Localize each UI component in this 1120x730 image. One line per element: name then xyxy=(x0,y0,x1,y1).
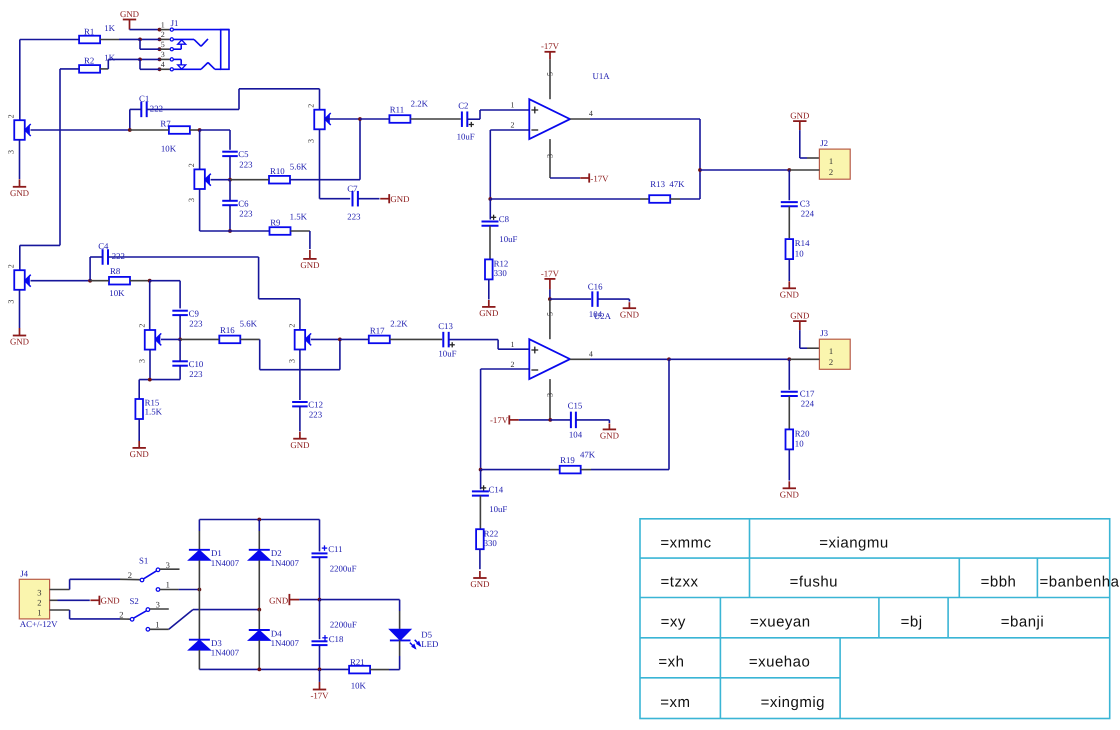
svg-text:D1: D1 xyxy=(211,548,222,558)
pin1 stub J4 xyxy=(50,609,70,611)
wire pin3 to -17V port xyxy=(550,177,580,179)
wire RP3 wiper to node xyxy=(326,118,361,120)
svg-text:J1: J1 xyxy=(171,18,179,28)
resistor R7 xyxy=(169,126,190,134)
svg-text:3: 3 xyxy=(307,139,316,143)
svg-text:=xh: =xh xyxy=(658,654,684,671)
svg-text:3: 3 xyxy=(156,600,160,610)
svg-text:2: 2 xyxy=(119,610,123,620)
svg-text:D3: D3 xyxy=(211,638,222,648)
wire C1 right to RP3 xyxy=(147,108,239,110)
svg-text:D4: D4 xyxy=(271,628,282,638)
svg-text:2: 2 xyxy=(128,570,132,580)
svg-text:2: 2 xyxy=(37,598,41,608)
svg-text:GND: GND xyxy=(269,595,288,605)
svg-text:GND: GND xyxy=(290,440,309,450)
svg-text:R9: R9 xyxy=(270,218,281,228)
ground C15 xyxy=(608,423,610,429)
wire gnd node to LED branch xyxy=(320,599,400,601)
svg-text:GND: GND xyxy=(600,431,619,441)
node top rail D2 xyxy=(257,518,261,522)
ground R22 xyxy=(479,571,481,578)
svg-text:GND: GND xyxy=(620,309,639,319)
wire R8 right xyxy=(130,280,150,282)
jack J1 body xyxy=(174,29,229,31)
svg-text:C17: C17 xyxy=(800,389,815,399)
resistor R10 xyxy=(269,176,290,184)
connector J3 xyxy=(819,339,850,369)
svg-text:222: 222 xyxy=(150,103,163,113)
wire U1A pin2 to feedback node xyxy=(489,130,491,199)
ground port J4 pin2 xyxy=(90,599,99,601)
wire RP5 pin2 xyxy=(149,281,151,330)
wire J1 pin3 to node xyxy=(140,58,160,60)
node feedback2 xyxy=(479,468,483,472)
svg-text:GND: GND xyxy=(479,308,498,318)
svg-text:S2: S2 xyxy=(130,596,139,606)
wire RP2 wiper to node xyxy=(211,179,230,181)
svg-text:C15: C15 xyxy=(568,401,583,411)
resistor R17 xyxy=(369,336,390,344)
capacitor C8 electrolytic xyxy=(489,199,491,220)
potentiometer RP3 xyxy=(314,110,325,130)
wire C9 down xyxy=(179,315,181,339)
wire C10 bottom xyxy=(179,366,181,380)
node C11/C18 xyxy=(318,598,322,602)
wire RP3 pin3 down to C7 xyxy=(319,129,321,198)
wire U2A pin2 down xyxy=(480,369,482,470)
wire C14 to R22 xyxy=(479,496,481,529)
svg-text:2.2K: 2.2K xyxy=(390,318,408,328)
svg-text:LED: LED xyxy=(421,639,438,649)
wire C6 top xyxy=(229,180,231,201)
svg-text:1K: 1K xyxy=(104,23,115,33)
svg-text:1.5K: 1.5K xyxy=(145,406,163,416)
capacitor C11 electrolytic xyxy=(312,552,328,554)
wire R10 right up to RP3 node xyxy=(290,179,360,181)
pin2 stub J2 xyxy=(789,169,819,171)
wire S1 throw1 to D1 node xyxy=(179,589,200,591)
capacitor C7 xyxy=(352,191,354,207)
svg-text:C13: C13 xyxy=(438,321,453,331)
resistor R13 xyxy=(649,195,670,203)
wire out2 to J3 xyxy=(669,358,789,360)
wire to C17 xyxy=(788,359,790,390)
svg-text:1N4007: 1N4007 xyxy=(271,558,300,568)
resistor R21 xyxy=(349,666,370,674)
power -17V supply xyxy=(319,669,321,682)
capacitor C2 xyxy=(461,111,463,127)
node J1 pin3 xyxy=(158,58,162,62)
node J1 pin1 xyxy=(158,28,162,32)
wire R12 to ground xyxy=(488,279,490,299)
svg-text:GND: GND xyxy=(470,579,489,589)
wire C17 to R20 xyxy=(788,396,790,429)
resistor R14 xyxy=(786,239,794,259)
node C4/R8 xyxy=(88,279,92,283)
wire R2 right jog xyxy=(100,68,108,70)
node R8 out xyxy=(148,279,152,283)
wire R21 right xyxy=(370,669,389,671)
capacitor C5 xyxy=(222,151,238,153)
capacitor C16 xyxy=(550,298,591,300)
wire R14 to ground xyxy=(788,259,790,281)
svg-text:1N4007: 1N4007 xyxy=(271,638,300,648)
connector J4 xyxy=(19,579,49,619)
wire to C3 xyxy=(788,170,790,200)
pin 2 wire U1A xyxy=(490,129,529,131)
wire C18 to bottom rail xyxy=(319,645,321,669)
svg-text:C16: C16 xyxy=(588,281,603,291)
svg-text:J2: J2 xyxy=(820,138,828,148)
op-amp U1A xyxy=(529,99,570,139)
jack J1 sleeve triangle upper xyxy=(174,48,182,50)
pin 2 stub J1 xyxy=(160,38,170,40)
svg-text:10uF: 10uF xyxy=(489,504,507,514)
svg-text:1: 1 xyxy=(37,608,41,618)
resistor R16 xyxy=(219,336,240,344)
pin1 stub J2 xyxy=(807,157,819,159)
ground C16 xyxy=(628,302,630,308)
wire R8 out to C9 branch xyxy=(150,280,180,282)
capacitor C13 xyxy=(442,332,444,348)
svg-text:C14: C14 xyxy=(489,484,504,494)
node RP3/R11 xyxy=(358,117,362,121)
svg-text:2: 2 xyxy=(7,114,16,118)
svg-text:R10: R10 xyxy=(270,166,285,176)
svg-text:223: 223 xyxy=(239,160,253,170)
node bottom rail D4 xyxy=(257,668,261,672)
svg-text:=xuehao: =xuehao xyxy=(749,654,810,671)
svg-text:=bbh: =bbh xyxy=(981,574,1017,591)
svg-text:R19: R19 xyxy=(560,455,575,465)
svg-text:GND: GND xyxy=(390,194,409,204)
wire RP2 pin2 xyxy=(199,130,201,169)
potentiometer RP5 xyxy=(145,330,156,350)
svg-text:=tzxx: =tzxx xyxy=(661,574,699,591)
wire J1 pin2 to node xyxy=(140,38,160,40)
svg-text:2: 2 xyxy=(161,30,165,39)
svg-text:=xm: =xm xyxy=(660,694,690,711)
resistor R22 xyxy=(476,529,484,549)
svg-text:S1: S1 xyxy=(139,556,148,566)
svg-text:10: 10 xyxy=(795,248,804,258)
svg-text:3: 3 xyxy=(187,198,196,202)
svg-text:C3: C3 xyxy=(800,199,811,209)
svg-text:2: 2 xyxy=(287,324,296,328)
capacitor C1 xyxy=(140,102,142,118)
svg-text:R8: R8 xyxy=(110,266,121,276)
node RP5 wiper xyxy=(178,338,182,342)
wire C12 to ground xyxy=(299,406,301,431)
svg-text:GND: GND xyxy=(790,311,809,321)
svg-text:GND: GND xyxy=(780,490,799,500)
wire D1 to S1 node xyxy=(198,560,200,589)
svg-text:AC+/-12V: AC+/-12V xyxy=(20,619,58,629)
capacitor C10 xyxy=(172,360,188,362)
svg-text:=xueyan: =xueyan xyxy=(750,614,811,631)
svg-text:5: 5 xyxy=(546,72,555,76)
svg-text:3: 3 xyxy=(7,300,16,304)
wire D2 column top xyxy=(258,520,260,532)
ground port C7 xyxy=(380,198,389,200)
pin 2 wire U2A xyxy=(481,368,530,370)
svg-text:5.6K: 5.6K xyxy=(240,319,258,329)
svg-text:2: 2 xyxy=(829,357,833,367)
svg-text:GND: GND xyxy=(101,596,120,606)
node S2/D2 xyxy=(257,608,261,612)
svg-text:223: 223 xyxy=(189,369,203,379)
pin 3 U2A down xyxy=(549,379,551,420)
svg-text:GND: GND xyxy=(300,260,319,270)
wire J4 pin2 to gnd port xyxy=(58,599,90,601)
svg-text:224: 224 xyxy=(801,399,815,409)
svg-text:1: 1 xyxy=(511,101,515,110)
svg-text:1N4007: 1N4007 xyxy=(211,558,240,568)
ground C12 xyxy=(299,432,301,439)
wire RP4 wiper xyxy=(31,280,91,282)
wire port to pin3 node xyxy=(519,419,551,421)
svg-text:1K: 1K xyxy=(104,52,115,62)
svg-text:5: 5 xyxy=(546,312,555,316)
wire R20 to ground xyxy=(788,449,790,480)
svg-text:C7: C7 xyxy=(347,184,358,194)
svg-text:GND: GND xyxy=(10,337,29,347)
wire bottom rail xyxy=(199,668,349,670)
svg-text:1.5K: 1.5K xyxy=(290,211,308,221)
resistor R1 xyxy=(79,36,100,44)
wire R16 right detour xyxy=(240,338,259,340)
svg-text:3: 3 xyxy=(546,154,555,158)
svg-text:1N4007: 1N4007 xyxy=(211,648,240,658)
wire C15 to ground xyxy=(576,419,609,421)
svg-text:223: 223 xyxy=(189,319,203,329)
wire RP5 wiper to node xyxy=(161,338,180,340)
svg-text:C4: C4 xyxy=(98,241,109,251)
wire C3 to R14 xyxy=(788,206,790,238)
pin1 stub J3 xyxy=(807,347,819,349)
power port -17V at U1A pin3 xyxy=(580,177,589,179)
pin 5 U2A xyxy=(549,299,551,339)
svg-text:10uF: 10uF xyxy=(499,234,517,244)
svg-text:R7: R7 xyxy=(160,118,171,128)
ground R15 xyxy=(138,441,140,448)
wire R2 left xyxy=(60,68,79,70)
capacitor C4 xyxy=(102,249,104,265)
svg-text:R1: R1 xyxy=(84,26,94,36)
svg-text:2: 2 xyxy=(137,324,146,328)
svg-text:-17V: -17V xyxy=(541,41,560,51)
wire R9 right to ground xyxy=(291,230,310,232)
wire S2 throw1 to D2 node xyxy=(169,610,193,630)
wire J4 pin1 to S2 xyxy=(69,610,71,619)
ground RP1 xyxy=(19,179,21,187)
svg-text:R16: R16 xyxy=(220,325,235,335)
wire R16 left xyxy=(180,338,219,340)
svg-text:-17V: -17V xyxy=(590,173,609,183)
node C16 branch xyxy=(549,289,551,299)
output wire U1A pin4 xyxy=(570,118,590,120)
svg-text:R11: R11 xyxy=(390,104,404,114)
wire LED to R21 xyxy=(399,640,401,656)
resistor R11 xyxy=(389,115,410,123)
wire R17 left xyxy=(340,338,369,340)
diode D3 xyxy=(189,639,210,641)
svg-text:3: 3 xyxy=(7,150,16,154)
wire J1 pin4 jog xyxy=(139,59,141,69)
wire C4 left xyxy=(90,256,103,258)
wire D4 to bottom rail xyxy=(258,640,260,669)
svg-text:GND: GND xyxy=(790,111,809,121)
node pin3/C15 xyxy=(548,418,552,422)
capacitor C9 xyxy=(172,310,188,312)
svg-text:1: 1 xyxy=(829,156,833,166)
wire J1 pin5 jog xyxy=(139,39,141,49)
wire GND to J1 pin1 xyxy=(130,29,160,31)
node bottom rail C18 xyxy=(318,668,322,672)
wire gnd to J2 pin1 xyxy=(799,130,801,158)
svg-text:=xmmc: =xmmc xyxy=(660,534,711,551)
svg-text:10K: 10K xyxy=(161,143,177,153)
svg-text:1: 1 xyxy=(511,340,515,349)
wire S1 node to D3 xyxy=(198,590,200,640)
wire R7 left stub xyxy=(130,129,169,131)
svg-text:3: 3 xyxy=(37,588,41,598)
node J1 pin4 xyxy=(158,67,162,71)
svg-text:1: 1 xyxy=(166,579,170,589)
svg-text:C1: C1 xyxy=(139,94,149,104)
svg-text:D2: D2 xyxy=(271,548,282,558)
wire R11 right xyxy=(410,118,460,120)
wire C2 to U1A pin1 xyxy=(467,118,480,120)
svg-text:C10: C10 xyxy=(189,359,204,369)
svg-text:2200uF: 2200uF xyxy=(330,563,357,573)
svg-text:GND: GND xyxy=(120,9,139,19)
svg-text:=banbenhao: =banbenhao xyxy=(1039,574,1120,591)
wire R19 right up xyxy=(581,469,591,471)
pin3 stub J4 xyxy=(50,589,70,591)
svg-text:10uF: 10uF xyxy=(438,349,456,359)
potentiometer RP1 xyxy=(14,120,25,140)
diode D2 xyxy=(249,549,270,551)
svg-text:C5: C5 xyxy=(238,149,249,159)
svg-text:223: 223 xyxy=(347,211,361,221)
svg-text:GND: GND xyxy=(130,449,149,459)
svg-text:330: 330 xyxy=(494,268,508,278)
svg-text:C2: C2 xyxy=(458,101,468,111)
svg-text:2: 2 xyxy=(7,264,16,268)
wire gnd port to node xyxy=(299,599,319,601)
svg-text:-17V: -17V xyxy=(310,691,329,701)
node RP6/R17 xyxy=(338,338,342,342)
capacitor C15 xyxy=(550,419,570,421)
pin2 stub J4 xyxy=(50,599,58,601)
svg-text:C18: C18 xyxy=(329,634,344,644)
svg-text:5: 5 xyxy=(161,40,165,49)
resistor R2 xyxy=(79,65,100,73)
wire C13 to U2A pin1 xyxy=(449,339,498,341)
svg-text:=fushu: =fushu xyxy=(790,574,838,591)
svg-text:3: 3 xyxy=(161,50,165,59)
diode D1 xyxy=(189,549,210,551)
wire C10 top xyxy=(179,339,181,361)
wire RP6 pin3 to C12 xyxy=(299,350,301,401)
node feedback1 xyxy=(488,197,492,201)
svg-text:-17V: -17V xyxy=(490,415,509,425)
svg-text:R20: R20 xyxy=(795,429,810,439)
output wire U2A pin4 xyxy=(570,358,590,360)
wire R11 left xyxy=(360,118,389,120)
svg-text:2: 2 xyxy=(187,163,196,167)
resistor R8 xyxy=(109,277,130,285)
wire R1 left to pot xyxy=(20,39,79,41)
svg-text:R13 47K: R13 47K xyxy=(650,179,685,189)
capacitor C18 electrolytic xyxy=(319,600,321,640)
svg-text:R2: R2 xyxy=(84,56,94,66)
wire LED branch down xyxy=(399,600,401,611)
svg-text:4: 4 xyxy=(161,60,165,69)
resistor R12 xyxy=(485,259,493,279)
node out1 xyxy=(698,168,702,172)
wire RP2 pin3 down xyxy=(199,189,201,231)
wire feedback to R13 xyxy=(490,198,640,200)
capacitor C17 xyxy=(781,391,798,393)
node J3 pin2 xyxy=(787,357,791,361)
node J2 pin2 xyxy=(787,168,791,172)
svg-text:R14: R14 xyxy=(795,238,810,248)
svg-text:1: 1 xyxy=(155,619,159,629)
potentiometer RP6 xyxy=(295,330,306,350)
wire R13 right up xyxy=(670,198,680,200)
svg-text:U1A: U1A xyxy=(593,71,611,81)
svg-text:2200uF: 2200uF xyxy=(330,619,357,629)
ground RP4 xyxy=(19,328,21,336)
svg-text:=xy: =xy xyxy=(661,614,686,631)
op-amp U2A xyxy=(529,339,570,379)
resistor R20 xyxy=(786,429,794,449)
wire R2 branch to RP4 xyxy=(20,244,60,246)
svg-text:1: 1 xyxy=(829,346,833,356)
wire RP6 wiper to node xyxy=(311,338,340,340)
wire C7 right xyxy=(358,198,380,200)
svg-text:C8: C8 xyxy=(499,214,510,224)
svg-text:2: 2 xyxy=(307,104,316,108)
pin 3 U1A down xyxy=(549,139,551,178)
node R7 out xyxy=(198,128,202,132)
node out2 branch xyxy=(667,357,671,361)
node S1/D1 xyxy=(198,588,202,592)
wire R15 to ground xyxy=(138,419,140,441)
svg-text:5.6K: 5.6K xyxy=(290,161,308,171)
wire RP5 pin3 down xyxy=(149,350,151,380)
svg-text:=bj: =bj xyxy=(901,614,923,631)
pin 1 stub J1 xyxy=(160,29,170,31)
svg-text:10K: 10K xyxy=(351,681,367,691)
ground R20 xyxy=(788,481,790,488)
svg-text:R17: R17 xyxy=(370,326,385,336)
wire C11 to gnd node xyxy=(319,557,321,599)
capacitor C12 xyxy=(292,401,308,403)
pin2 stub J3 xyxy=(789,358,819,360)
pin 4 stub J1 xyxy=(160,68,170,70)
wire RP1 wiper xyxy=(31,129,130,131)
wire C8 to R12 xyxy=(489,226,491,260)
wire D2 to S2 node xyxy=(258,560,260,609)
node J1 pin2 xyxy=(158,38,162,42)
pin 3 stub J1 xyxy=(160,58,170,60)
svg-text:C9: C9 xyxy=(189,308,200,318)
svg-text:2: 2 xyxy=(829,167,833,177)
